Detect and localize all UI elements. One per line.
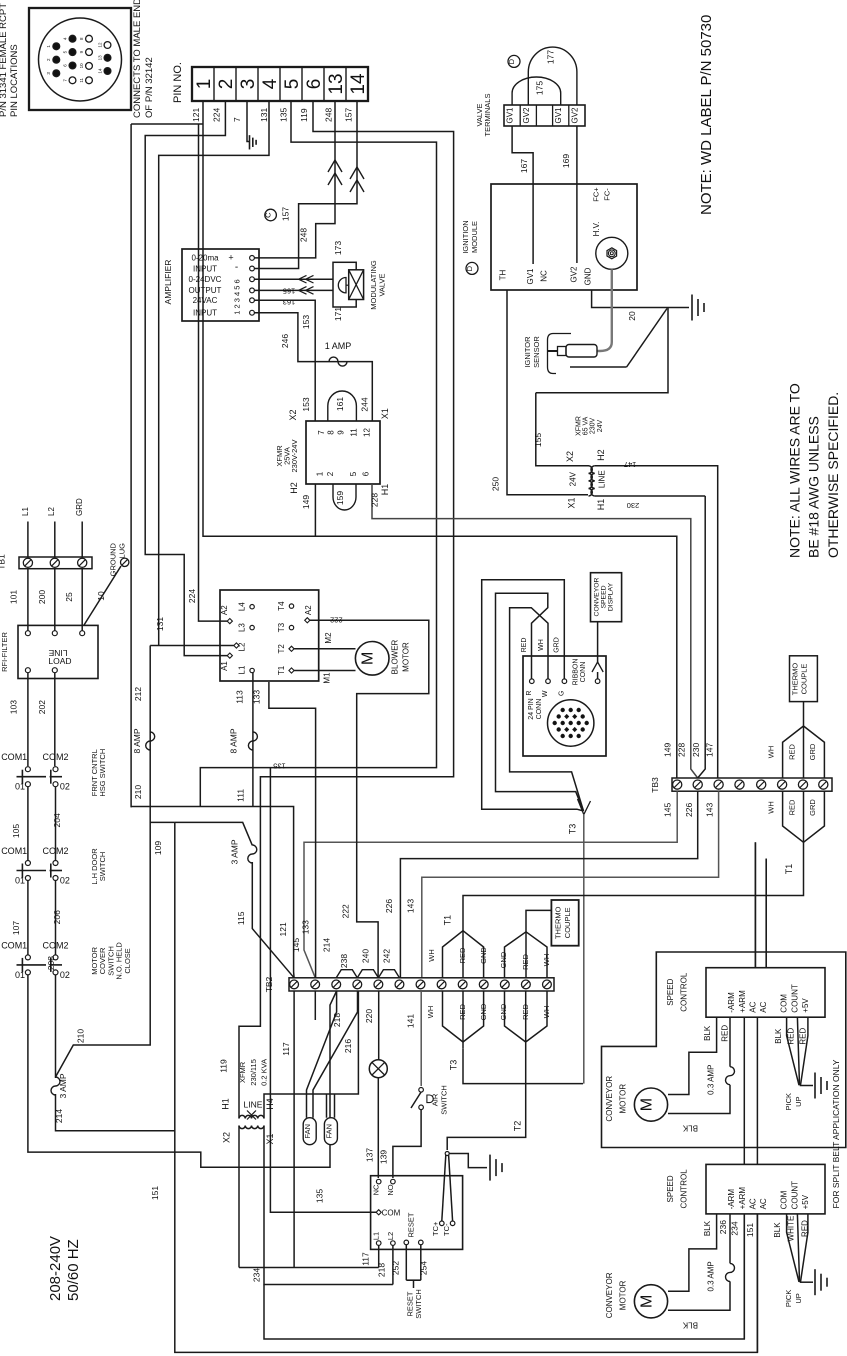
svg-text:212: 212: [133, 687, 143, 701]
svg-text:UP: UP: [794, 1096, 803, 1106]
svg-text:NC: NC: [372, 1184, 381, 1195]
svg-text:147: 147: [624, 460, 637, 469]
svg-text:2: 2: [326, 471, 335, 476]
svg-text:INPUT: INPUT: [193, 309, 217, 318]
svg-text:GND: GND: [499, 951, 508, 968]
svg-text:3 AMP: 3 AMP: [230, 839, 240, 864]
svg-text:151: 151: [150, 1186, 160, 1200]
svg-text:LOAD: LOAD: [48, 656, 71, 666]
svg-text:GROUND: GROUND: [109, 542, 118, 576]
svg-text:TB3: TB3: [650, 777, 660, 793]
svg-text:+ARM: +ARM: [738, 990, 747, 1013]
svg-text:NOTE: ALL WIRES ARE TO: NOTE: ALL WIRES ARE TO: [787, 383, 803, 558]
svg-text:CONVEYOR: CONVEYOR: [605, 1272, 614, 1318]
svg-text:+5V: +5V: [801, 1194, 810, 1209]
svg-text:SPEED: SPEED: [666, 978, 675, 1005]
svg-text:224: 224: [212, 108, 222, 122]
svg-text:105: 105: [11, 824, 21, 838]
svg-text:200: 200: [37, 590, 47, 604]
svg-text:OF P/N 32142: OF P/N 32142: [144, 57, 155, 118]
svg-text:01: 01: [15, 970, 25, 980]
svg-text:RESET: RESET: [407, 1212, 416, 1237]
svg-text:SPEED: SPEED: [666, 1175, 675, 1202]
svg-text:COM2: COM2: [42, 752, 68, 762]
svg-text:163: 163: [283, 298, 296, 307]
svg-text:173: 173: [333, 241, 343, 255]
svg-text:HSG SWITCH: HSG SWITCH: [98, 749, 107, 797]
svg-text:167: 167: [519, 159, 529, 173]
svg-text:RED: RED: [788, 744, 797, 760]
svg-text:T1: T1: [277, 665, 286, 675]
svg-text:COM1: COM1: [1, 752, 27, 762]
svg-text:113: 113: [235, 690, 245, 704]
svg-text:MOTOR: MOTOR: [401, 642, 410, 672]
svg-text:02: 02: [60, 970, 70, 980]
svg-text:248: 248: [299, 228, 309, 242]
svg-text:1: 1: [316, 471, 325, 476]
svg-text:224: 224: [187, 589, 197, 603]
svg-text:GRD: GRD: [554, 637, 561, 653]
svg-text:PICK: PICK: [784, 1290, 793, 1308]
svg-text:FOR SPLIT BELT APPLICATION ONL: FOR SPLIT BELT APPLICATION ONLY: [831, 1059, 841, 1208]
svg-text:RIBBON: RIBBON: [573, 659, 580, 686]
svg-text:T4: T4: [277, 601, 286, 611]
svg-text:COUNT: COUNT: [790, 1181, 799, 1210]
svg-text:234: 234: [730, 1221, 740, 1235]
svg-text:A1: A1: [220, 661, 229, 671]
svg-text:SWITCH: SWITCH: [440, 1085, 449, 1115]
svg-text:A2: A2: [304, 605, 313, 615]
svg-text:H2: H2: [289, 482, 299, 494]
svg-text:0.2 KVA: 0.2 KVA: [259, 1059, 268, 1086]
svg-text:CONNECTS TO MALE END: CONNECTS TO MALE END: [132, 0, 143, 118]
svg-text:109: 109: [153, 841, 163, 855]
svg-text:COM1: COM1: [1, 846, 27, 856]
svg-text:149: 149: [301, 495, 311, 509]
svg-text:M1: M1: [323, 672, 332, 684]
svg-text:CONTROL: CONTROL: [680, 1169, 689, 1209]
svg-text:11: 11: [79, 77, 84, 82]
svg-text:L1: L1: [21, 507, 30, 516]
svg-text:FC-: FC-: [603, 188, 612, 201]
svg-text:PICK: PICK: [784, 1093, 793, 1111]
svg-text:GV1: GV1: [506, 107, 515, 124]
svg-text:WH: WH: [766, 801, 775, 814]
svg-text:226: 226: [384, 899, 394, 913]
svg-text:OUTPUT: OUTPUT: [189, 286, 222, 295]
svg-text:CONVEYOR: CONVEYOR: [594, 577, 601, 616]
svg-text:0-24DVC: 0-24DVC: [189, 275, 222, 284]
svg-text:SWITCH: SWITCH: [414, 1289, 423, 1319]
svg-text:2: 2: [216, 79, 237, 90]
svg-text:A2: A2: [220, 605, 229, 615]
svg-text:RED: RED: [799, 1028, 808, 1045]
svg-text:230: 230: [627, 501, 640, 510]
svg-text:L1: L1: [238, 665, 247, 674]
svg-text:01: 01: [15, 876, 25, 886]
svg-text:137: 137: [365, 1148, 375, 1162]
svg-text:12: 12: [97, 42, 102, 48]
svg-text:153: 153: [301, 397, 311, 411]
svg-text:5: 5: [282, 79, 303, 90]
svg-text:135: 135: [279, 108, 289, 122]
svg-text:AC: AC: [759, 1198, 768, 1209]
svg-text:153: 153: [301, 315, 311, 329]
svg-text:214: 214: [54, 1109, 64, 1123]
svg-text:X1: X1: [380, 408, 390, 419]
svg-text:240: 240: [361, 949, 371, 963]
svg-text:TB2: TB2: [264, 976, 274, 992]
svg-text:GRD: GRD: [808, 799, 817, 816]
svg-text:COUPLE: COUPLE: [563, 907, 572, 938]
svg-text:PIN LOCATIONS: PIN LOCATIONS: [9, 44, 20, 117]
svg-text:11: 11: [349, 428, 358, 437]
svg-text:24VAC: 24VAC: [193, 296, 218, 305]
svg-text:X1: X1: [567, 497, 577, 508]
svg-text:101: 101: [9, 590, 19, 604]
svg-text:177: 177: [545, 50, 555, 64]
svg-text:AMPLIFIER: AMPLIFIER: [163, 260, 173, 305]
svg-text:CONN: CONN: [536, 699, 543, 720]
svg-text:NOTE: WD LABEL P/N 50730: NOTE: WD LABEL P/N 50730: [698, 15, 715, 215]
svg-text:L3: L3: [238, 623, 247, 632]
svg-text:GRD: GRD: [75, 498, 84, 516]
svg-text:GRD: GRD: [808, 743, 817, 760]
svg-text:7: 7: [232, 117, 242, 122]
svg-text:GV1: GV1: [554, 107, 563, 124]
svg-text:3: 3: [238, 79, 259, 90]
svg-text:206: 206: [52, 910, 62, 924]
svg-text:216: 216: [343, 1039, 353, 1053]
svg-text:WH: WH: [427, 949, 436, 962]
svg-text:TH: TH: [499, 269, 508, 280]
svg-text:WH: WH: [542, 1006, 551, 1019]
svg-text:AC: AC: [759, 1001, 768, 1012]
svg-text:P/N 31341 FEMALE RCPT: P/N 31341 FEMALE RCPT: [0, 3, 9, 117]
svg-text:204: 204: [52, 813, 62, 827]
svg-text:VALVE: VALVE: [378, 273, 387, 296]
svg-text:THERMO: THERMO: [554, 906, 563, 939]
svg-text:XFMR: XFMR: [238, 1061, 247, 1083]
svg-text:LINE: LINE: [244, 1100, 263, 1110]
svg-text:AIR: AIR: [431, 1093, 440, 1106]
svg-text:SWITCH: SWITCH: [98, 852, 107, 882]
svg-text:RED: RED: [458, 1004, 467, 1020]
svg-text:T3: T3: [567, 824, 577, 835]
svg-text:FC+: FC+: [592, 187, 601, 202]
svg-text:T2: T2: [513, 1121, 523, 1132]
svg-text:BLOWER: BLOWER: [391, 639, 400, 674]
svg-text:C: C: [264, 212, 273, 218]
svg-text:GV2: GV2: [522, 107, 531, 124]
svg-text:X2: X2: [222, 1132, 232, 1143]
svg-text:BE #18 AWG UNLESS: BE #18 AWG UNLESS: [806, 416, 822, 558]
svg-text:FAN: FAN: [324, 1124, 333, 1139]
svg-text:GND: GND: [499, 1003, 508, 1020]
svg-text:+: +: [228, 253, 233, 263]
svg-text:13: 13: [326, 73, 347, 94]
svg-text:M: M: [360, 652, 377, 665]
svg-text:242: 242: [382, 949, 392, 963]
svg-text:5: 5: [349, 471, 358, 476]
svg-text:THERMO: THERMO: [791, 663, 800, 696]
svg-text:24V: 24V: [569, 471, 578, 486]
svg-text:BLK: BLK: [703, 1220, 712, 1236]
svg-text:RED: RED: [788, 799, 797, 815]
svg-text:208-240V: 208-240V: [47, 1236, 64, 1301]
svg-text:BLK: BLK: [682, 1320, 698, 1329]
svg-text:WH: WH: [766, 746, 775, 759]
svg-text:RED: RED: [786, 1028, 795, 1045]
svg-text:FAN: FAN: [303, 1124, 312, 1139]
svg-text:208: 208: [46, 956, 56, 970]
svg-text:BLK: BLK: [682, 1124, 698, 1133]
svg-text:WH: WH: [542, 954, 551, 967]
svg-text:175: 175: [535, 81, 545, 95]
svg-text:171: 171: [333, 307, 343, 321]
svg-text:X2: X2: [565, 451, 575, 462]
svg-text:WH: WH: [538, 639, 545, 651]
svg-text:BLK: BLK: [703, 1025, 712, 1041]
svg-text:D: D: [507, 58, 516, 64]
svg-text:G: G: [559, 691, 566, 696]
svg-text:COM1: COM1: [1, 940, 27, 950]
svg-text:155: 155: [533, 433, 543, 447]
svg-text:244: 244: [360, 397, 370, 411]
svg-text:135: 135: [315, 1189, 325, 1203]
svg-text:222: 222: [330, 616, 343, 625]
svg-text:0.3 AMP: 0.3 AMP: [707, 1065, 716, 1095]
svg-text:GND: GND: [479, 947, 488, 964]
svg-text:COM: COM: [382, 1209, 401, 1218]
svg-text:25: 25: [64, 592, 74, 602]
svg-text:135: 135: [273, 762, 286, 771]
svg-text:R: R: [526, 691, 533, 696]
svg-text:14: 14: [348, 73, 369, 95]
svg-text:GV2: GV2: [570, 266, 579, 283]
svg-text:103: 103: [9, 700, 19, 714]
svg-text:24 PIN: 24 PIN: [528, 698, 535, 719]
svg-text:214: 214: [322, 938, 332, 952]
svg-text:1 AMP: 1 AMP: [325, 341, 352, 351]
svg-text:RED: RED: [521, 1004, 530, 1020]
svg-text:143: 143: [704, 803, 714, 817]
svg-text:H1: H1: [596, 499, 606, 511]
svg-text:10: 10: [79, 63, 84, 69]
svg-text:L2: L2: [386, 1232, 395, 1240]
svg-text:AC: AC: [748, 1198, 757, 1209]
svg-text:MOTOR: MOTOR: [619, 1084, 628, 1114]
svg-text:+5V: +5V: [801, 998, 810, 1013]
svg-text:65 VA: 65 VA: [583, 416, 590, 435]
svg-text:50/60 HZ: 50/60 HZ: [65, 1239, 82, 1301]
svg-text:117: 117: [281, 1042, 291, 1056]
svg-text:0.3 AMP: 0.3 AMP: [707, 1261, 716, 1291]
svg-text:COM: COM: [780, 994, 789, 1013]
svg-text:20: 20: [627, 311, 637, 321]
svg-text:230V: 230V: [590, 418, 597, 435]
svg-text:T2: T2: [277, 644, 286, 654]
svg-text:1 2 3 4 5 6: 1 2 3 4 5 6: [233, 279, 242, 314]
svg-text:115: 115: [236, 911, 246, 925]
svg-text:LUG: LUG: [118, 543, 127, 559]
svg-text:8 AMP: 8 AMP: [132, 728, 142, 753]
svg-text:RED: RED: [521, 638, 528, 653]
svg-text:226: 226: [684, 803, 694, 817]
svg-text:230/115: 230/115: [249, 1059, 258, 1086]
svg-text:-ARM: -ARM: [727, 1189, 736, 1210]
svg-text:159: 159: [335, 491, 345, 505]
svg-text:141: 141: [405, 1014, 415, 1028]
svg-text:T1: T1: [443, 915, 453, 926]
svg-text:TERMINALS: TERMINALS: [483, 94, 492, 137]
svg-text:X2: X2: [288, 409, 298, 420]
svg-text:9: 9: [337, 430, 346, 435]
svg-text:AC: AC: [748, 1001, 757, 1012]
svg-text:M2: M2: [324, 632, 333, 644]
svg-text:12: 12: [362, 428, 371, 437]
svg-text:CONTROL: CONTROL: [680, 972, 689, 1012]
svg-text:230V-24V: 230V-24V: [290, 440, 299, 473]
svg-text:111: 111: [235, 789, 245, 802]
svg-text:228: 228: [676, 743, 686, 757]
svg-text:147: 147: [704, 743, 714, 757]
svg-text:238: 238: [339, 954, 349, 968]
svg-text:+ARM: +ARM: [738, 1187, 747, 1210]
svg-text:H.V.: H.V.: [592, 222, 601, 237]
svg-text:202: 202: [37, 700, 47, 714]
svg-text:INPUT: INPUT: [193, 264, 217, 273]
svg-text:119: 119: [299, 108, 309, 122]
svg-text:145: 145: [291, 938, 301, 952]
svg-text:W: W: [542, 690, 549, 697]
svg-text:GND: GND: [584, 267, 593, 285]
svg-text:151: 151: [745, 1223, 755, 1237]
svg-text:-ARM: -ARM: [727, 992, 736, 1013]
svg-text:RED: RED: [458, 947, 467, 963]
svg-text:RED: RED: [801, 1220, 810, 1237]
svg-text:7: 7: [317, 430, 326, 435]
svg-text:210: 210: [133, 785, 143, 799]
svg-text:COUNT: COUNT: [790, 984, 799, 1013]
svg-text:H2: H2: [596, 449, 606, 461]
svg-text:139: 139: [379, 1150, 389, 1164]
svg-text:H1: H1: [221, 1098, 231, 1110]
svg-text:PIN NO.: PIN NO.: [172, 62, 184, 103]
svg-text:02: 02: [60, 782, 70, 792]
svg-text:GV2: GV2: [570, 107, 579, 124]
svg-text:0-20ma: 0-20ma: [191, 254, 219, 263]
svg-text:248: 248: [323, 108, 333, 122]
svg-text:RED: RED: [521, 954, 530, 970]
svg-text:IGNITOR: IGNITOR: [523, 336, 532, 368]
svg-text:222: 222: [341, 904, 351, 918]
svg-text:169: 169: [561, 154, 571, 168]
svg-text:IGNITION: IGNITION: [461, 220, 470, 253]
svg-text:OTHERWISE SPECIFIED.: OTHERWISE SPECIFIED.: [825, 392, 841, 558]
svg-text:UP: UP: [794, 1293, 803, 1303]
svg-text:157: 157: [344, 108, 354, 122]
svg-text:H1: H1: [380, 484, 390, 496]
svg-text:228: 228: [369, 493, 379, 507]
svg-text:L2: L2: [47, 507, 56, 516]
svg-text:CONN: CONN: [580, 662, 587, 683]
svg-text:CONVEYOR: CONVEYOR: [605, 1076, 614, 1122]
svg-text:T1: T1: [784, 864, 794, 875]
svg-text:LINE: LINE: [598, 470, 607, 488]
svg-text:10: 10: [96, 591, 106, 601]
svg-text:SENSOR: SENSOR: [532, 336, 541, 368]
svg-text:T3: T3: [277, 622, 286, 632]
svg-text:TB1: TB1: [0, 554, 7, 570]
svg-text:121: 121: [191, 108, 201, 122]
svg-text:236: 236: [718, 1220, 728, 1234]
svg-text:157: 157: [281, 207, 291, 221]
svg-text:XFMR: XFMR: [576, 416, 583, 436]
svg-text:L2: L2: [238, 642, 247, 651]
svg-text:01: 01: [15, 782, 25, 792]
svg-text:246: 246: [280, 334, 290, 348]
svg-text:CLOSE: CLOSE: [123, 948, 132, 973]
svg-text:T3: T3: [448, 1060, 458, 1071]
svg-text:TC+: TC+: [431, 1221, 440, 1236]
svg-text:131: 131: [155, 617, 165, 631]
svg-text:COUPLE: COUPLE: [800, 664, 809, 695]
svg-text:NO: NO: [386, 1184, 395, 1195]
svg-text:6: 6: [304, 79, 325, 90]
svg-text:DISPLAY: DISPLAY: [608, 582, 615, 611]
svg-text:GV1: GV1: [526, 268, 535, 285]
svg-text:14: 14: [97, 68, 102, 74]
svg-text:119: 119: [219, 1059, 229, 1073]
svg-text:X1: X1: [265, 1133, 275, 1144]
svg-text:230: 230: [691, 743, 701, 757]
svg-text:250: 250: [490, 477, 500, 491]
svg-text:133: 133: [300, 920, 310, 934]
svg-text:4: 4: [260, 78, 281, 89]
svg-text:WHITE: WHITE: [786, 1216, 795, 1242]
svg-text:MOTOR: MOTOR: [619, 1280, 628, 1310]
svg-text:D: D: [465, 265, 474, 271]
svg-text:131: 131: [259, 108, 269, 122]
svg-text:143: 143: [405, 899, 415, 913]
svg-text:13: 13: [97, 55, 102, 61]
svg-text:BLK: BLK: [773, 1222, 782, 1238]
svg-text:NC: NC: [540, 270, 549, 282]
svg-text:GND: GND: [479, 1003, 488, 1020]
svg-text:H4: H4: [265, 1098, 275, 1110]
svg-text:MODULE: MODULE: [470, 221, 479, 253]
svg-text:TC-: TC-: [442, 1223, 451, 1236]
svg-text:234: 234: [251, 1268, 261, 1282]
svg-text:L4: L4: [238, 602, 247, 611]
svg-text:1: 1: [194, 79, 215, 90]
svg-text:8: 8: [326, 430, 335, 435]
svg-text:RED: RED: [721, 1025, 730, 1042]
svg-text:24V: 24V: [597, 419, 604, 432]
svg-text:165: 165: [283, 287, 296, 296]
svg-text:8 AMP: 8 AMP: [228, 728, 238, 753]
svg-text:L1: L1: [372, 1232, 381, 1240]
svg-text:252: 252: [390, 1261, 400, 1275]
svg-text:02: 02: [60, 876, 70, 886]
svg-text:SPEED: SPEED: [601, 585, 608, 608]
svg-text:COM: COM: [780, 1190, 789, 1209]
svg-text:121: 121: [278, 922, 288, 936]
svg-text:107: 107: [11, 921, 21, 935]
svg-text:145: 145: [663, 803, 673, 817]
svg-text:161: 161: [335, 397, 345, 411]
